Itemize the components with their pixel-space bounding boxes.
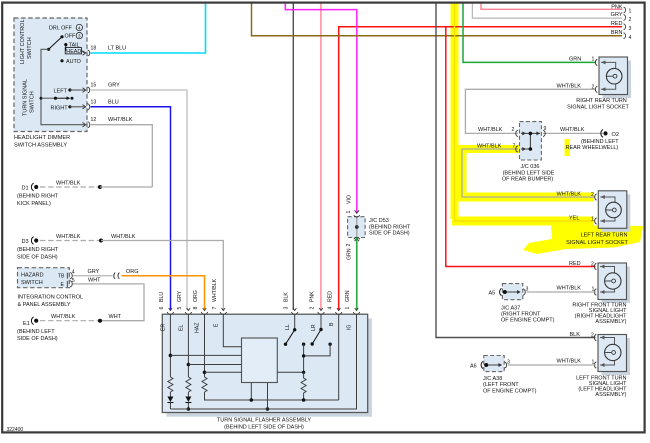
svg-text:2: 2	[592, 84, 595, 90]
svg-text:WHT/BLK: WHT/BLK	[557, 358, 582, 364]
wire WHT/BLK dashed from D1	[40, 186, 100, 188]
circled 4	[76, 24, 82, 30]
svg-text:SIDE OF DASH): SIDE OF DASH)	[17, 336, 58, 342]
svg-text:SIDE OF DASH): SIDE OF DASH)	[369, 231, 410, 237]
right edge pin numbers	[629, 9, 632, 42]
svg-text:(BEHIND RIGHT: (BEHIND RIGHT	[17, 194, 59, 200]
hazard switch box	[18, 268, 70, 288]
svg-text:2: 2	[310, 307, 316, 310]
svg-text:2: 2	[591, 333, 594, 339]
svg-text:J/C A37: J/C A37	[501, 305, 520, 311]
highlighter stroke vertical YEL wire	[451, 3, 459, 220]
label (BEHIND LEFT REAR WHEELWELL)	[566, 139, 620, 151]
ground A6	[470, 361, 483, 369]
right front turn signal light	[594, 263, 630, 303]
wire YEL under highlighter to left rear socket	[455, 3, 596, 221]
turn signal switch tap dot	[40, 97, 43, 100]
J/C036 bus dots	[529, 132, 533, 136]
svg-text:J/C A38: J/C A38	[483, 376, 502, 382]
svg-text:7: 7	[513, 144, 516, 150]
LL switch pivot dot	[293, 328, 296, 331]
wire WHT/BLK J/C036 pin9 to O2	[543, 132, 603, 134]
J/C D53 junction box	[348, 217, 366, 238]
svg-text:BLU: BLU	[108, 99, 119, 105]
svg-text:4: 4	[72, 270, 75, 276]
lamp contact left dot	[302, 343, 305, 346]
wire HAZ resistor to B rail	[205, 392, 339, 400]
svg-text:SWITCH: SWITCH	[21, 280, 43, 286]
label (BEHIND LEFT SIDE OF DASH)	[17, 329, 58, 342]
svg-text:WHT/BLK: WHT/BLK	[56, 180, 81, 186]
wire ORG from connector to flasher HAZ	[122, 276, 205, 310]
svg-text:PNK: PNK	[611, 4, 623, 10]
wire GRN from J/C D53 to flasher IG	[356, 238, 358, 311]
wire WHT/BLK right front pin1 to J/C A37	[527, 291, 597, 293]
flasher ER internal line	[169, 314, 171, 377]
left rear turn signal light socket	[595, 191, 631, 232]
svg-text:DRL OFF: DRL OFF	[49, 26, 73, 32]
svg-text:8: 8	[193, 307, 199, 310]
flasher B internal line to B rail	[338, 314, 340, 400]
svg-text:12: 12	[91, 117, 97, 123]
svg-text:4: 4	[327, 307, 333, 310]
wire WHT/BLK right rear socket pin2 to J/C 036 pin2	[465, 89, 596, 133]
svg-text:RIGHT: RIGHT	[51, 105, 69, 111]
svg-text:4: 4	[78, 26, 81, 31]
highlighter stroke wire corner vertical	[458, 145, 467, 200]
flasher HAZ internal line	[204, 314, 206, 377]
rotated wire labels above flasher	[159, 278, 351, 302]
svg-text:GRY: GRY	[88, 269, 100, 275]
svg-text:SIDE OF DASH): SIDE OF DASH)	[17, 254, 58, 260]
svg-text:J/C D53: J/C D53	[369, 218, 389, 224]
J/C036 internal wires	[521, 133, 540, 149]
svg-text:LR: LR	[311, 324, 317, 331]
svg-text:1: 1	[592, 286, 595, 292]
wire ER to IC	[170, 354, 241, 356]
svg-text:(BEHIND LEFT SIDE: (BEHIND LEFT SIDE	[503, 170, 555, 176]
J/C D53 internal wire	[356, 217, 358, 237]
svg-text:2: 2	[346, 244, 352, 247]
svg-text:TURN SIGNAL: TURN SIGNAL	[23, 79, 29, 116]
right edge connectors	[624, 7, 626, 39]
svg-text:J/C 036: J/C 036	[521, 164, 540, 170]
svg-text:WHT: WHT	[88, 278, 101, 284]
svg-text:18: 18	[91, 46, 97, 52]
ground A5	[489, 288, 502, 296]
svg-text:TB: TB	[58, 274, 65, 280]
IC bottom leg to B rail	[250, 383, 252, 401]
label (BEHIND RIGHT SIDE OF DASH)	[17, 247, 59, 260]
highlighter stroke over WHT/BLK wire to left rear socket pin2	[451, 193, 594, 202]
svg-text:A6: A6	[470, 363, 477, 369]
svg-text:REAR WHEELWELL): REAR WHEELWELL)	[566, 145, 619, 151]
svg-text:GRY: GRY	[177, 290, 183, 302]
svg-text:WHT/BLK: WHT/BLK	[557, 191, 582, 197]
label RIGHT FRONT TURN SIGNAL LIGHT (RIGHT HEADLIGHT ASSEMBLY)	[572, 302, 627, 325]
svg-text:BLK: BLK	[283, 292, 289, 302]
LR switch arm	[312, 330, 321, 345]
resistor ER	[168, 377, 173, 392]
J/C D53 bottom pin connector	[354, 237, 360, 241]
pin 13 connector	[83, 104, 90, 110]
label HAZARD SWITCH	[21, 273, 44, 287]
svg-text:3: 3	[283, 307, 289, 310]
J/C036 pin2 connector	[516, 130, 526, 136]
svg-text:VIO: VIO	[347, 195, 353, 204]
svg-text:OF REAR BUMPER): OF REAR BUMPER)	[502, 177, 554, 183]
svg-text:WHT/BLK: WHT/BLK	[477, 144, 502, 150]
left front turn signal light	[594, 334, 630, 375]
svg-text:GRN: GRN	[347, 248, 353, 260]
LEFT contact wire to pin 15	[70, 89, 85, 91]
J/C A37 internal wire and dot	[505, 291, 521, 293]
svg-text:LEFT: LEFT	[54, 88, 68, 94]
svg-text:SWITCH: SWITCH	[30, 91, 36, 113]
svg-text:WHT/BLK: WHT/BLK	[51, 314, 76, 320]
svg-text:1: 1	[592, 57, 595, 63]
svg-text:LIGHT CONTROL: LIGHT CONTROL	[20, 19, 26, 64]
rotated pin numbers above flasher	[159, 307, 351, 310]
contact merge wires	[304, 344, 331, 372]
svg-text:(BEHIND LEFT SIDE OF DASH): (BEHIND LEFT SIDE OF DASH)	[224, 425, 304, 431]
svg-text:O2: O2	[612, 132, 619, 138]
flasher LR switch line	[320, 314, 322, 329]
svg-text:ORG: ORG	[126, 269, 139, 275]
highlighter tick near O2 ground	[565, 139, 571, 156]
J/C036 pin9 connector	[536, 130, 545, 136]
svg-text:LT BLU: LT BLU	[108, 46, 126, 52]
svg-text:IG: IG	[347, 325, 353, 330]
svg-text:A5: A5	[489, 290, 496, 296]
hazard pin numbers	[72, 270, 75, 284]
light control switch arm	[49, 37, 62, 50]
circled 3	[76, 32, 82, 38]
RIGHT contact wire to pin 13	[70, 106, 85, 108]
rotated pin names inside flasher	[161, 322, 353, 333]
junction dot IC leg on ground bus	[266, 407, 270, 411]
wire PNK top right	[481, 3, 622, 9]
wire WHT/BLK left front pin1 to J/C A38	[508, 364, 596, 366]
turn signal switch arm with arrow	[55, 97, 68, 99]
label TURN SIGNAL SWITCH (rotated)	[23, 79, 36, 116]
svg-text:ASSEMBLY): ASSEMBLY)	[595, 392, 626, 398]
lamp contact right dot	[328, 343, 331, 346]
label HEADLIGHT DIMMER SWITCH ASSEMBLY	[14, 135, 70, 148]
svg-text:SIGNAL LIGHT SOCKET: SIGNAL LIGHT SOCKET	[566, 240, 628, 246]
hazard pin E connector	[67, 281, 72, 287]
svg-text:WHT/BLK: WHT/BLK	[557, 84, 582, 90]
svg-text:WHT/BLK: WHT/BLK	[111, 234, 136, 240]
svg-text:RED: RED	[327, 291, 333, 302]
HAZ junction dot	[203, 371, 207, 375]
resistor HAZ	[202, 377, 207, 392]
svg-text:3: 3	[629, 26, 632, 32]
wire GRY from hazard TB	[73, 275, 113, 277]
svg-text:3: 3	[526, 286, 529, 292]
svg-text:HAZARD: HAZARD	[21, 273, 44, 279]
svg-text:ORG: ORG	[193, 290, 199, 302]
svg-text:1: 1	[629, 9, 632, 15]
svg-text:15: 15	[91, 83, 97, 89]
wire WHT/BLK from D3 junction to flasher E pin	[101, 241, 223, 311]
svg-text:PNK: PNK	[310, 291, 316, 302]
flasher IG internal line and ground bus	[170, 314, 356, 409]
svg-text:TURN SIGNAL FLASHER ASSEMBLY: TURN SIGNAL FLASHER ASSEMBLY	[217, 418, 311, 424]
junction dot D3 wire	[99, 239, 103, 243]
junction dot lamp resistor top	[302, 371, 305, 374]
svg-text:WHT/BLK: WHT/BLK	[212, 278, 218, 302]
ground D3	[22, 237, 39, 245]
ground E1	[23, 317, 38, 327]
wire WHT/BLK J/C036 pin7 to left rear socket pin2	[462, 149, 596, 197]
J/C D53 junction dot	[355, 225, 359, 229]
wire LT BLU from pin 18 to top	[91, 3, 206, 53]
svg-text:D3: D3	[22, 239, 29, 245]
HEAD contact frame	[65, 48, 81, 54]
pin 12 connector	[83, 122, 90, 128]
EL bottom junction dot	[187, 407, 191, 411]
svg-text:2: 2	[512, 127, 515, 133]
svg-text:5: 5	[72, 278, 75, 284]
svg-text:LEFT REAR TURN: LEFT REAR TURN	[581, 233, 628, 239]
svg-text:EL: EL	[179, 325, 185, 331]
turn signal switch arm base dot	[54, 97, 57, 100]
J/C A37 junction box	[502, 284, 522, 300]
labels J/C 036 (BEHIND LEFT SIDE OF REAR BUMPER)	[502, 164, 555, 183]
svg-text:ER: ER	[161, 324, 167, 331]
IC bottom leg to ground bus	[267, 383, 269, 410]
highlighter stroke over J/C 036 pin7 wire	[451, 145, 519, 153]
svg-text:6: 6	[159, 307, 165, 310]
wire GRN from top to right rear socket	[463, 3, 596, 62]
svg-text:5: 5	[177, 307, 183, 310]
svg-text:2: 2	[591, 192, 594, 198]
wire BLK from top to left front turn signal	[436, 3, 596, 338]
hazard pin names TB and E	[58, 274, 65, 288]
J/C036 internal bus	[529, 133, 531, 149]
wire BLK from top to flasher LL	[292, 3, 294, 310]
J/C A37 pin3 connector	[517, 289, 525, 295]
svg-text:LL: LL	[285, 324, 291, 330]
svg-text:BLK: BLK	[570, 332, 581, 338]
LL switch arm	[286, 330, 295, 344]
svg-text:7: 7	[212, 307, 218, 310]
svg-text:KICK PANEL): KICK PANEL)	[17, 201, 51, 207]
svg-text:WHT/BLK: WHT/BLK	[478, 127, 503, 133]
J/C A38 internal wire and dot	[486, 364, 502, 366]
pin 18 connector	[83, 50, 90, 56]
label LEFT REAR TURN SIGNAL LIGHT SOCKET	[566, 233, 628, 246]
svg-text:(BEHIND LEFT: (BEHIND LEFT	[17, 329, 55, 335]
switch common wire to pin 12	[41, 49, 85, 124]
svg-text:OF ENGINE COMPT): OF ENGINE COMPT)	[501, 318, 555, 324]
svg-text:B: B	[329, 322, 335, 326]
light control switch pivot dot	[47, 48, 50, 51]
ground D1	[22, 183, 39, 191]
TAIL contact dot	[64, 43, 67, 46]
headlight dimmer switch assembly box	[14, 18, 87, 132]
svg-text:& PANEL ASSEMBLY: & PANEL ASSEMBLY	[18, 302, 71, 308]
turn signal flasher assembly shadow	[167, 318, 372, 416]
svg-text:HEADLIGHT DIMMER: HEADLIGHT DIMMER	[14, 135, 70, 141]
turn signal arm tip dot	[71, 97, 74, 100]
label INTEGRATION CONTROL & PANEL ASSEMBLY	[18, 295, 84, 308]
wire WHT/BLK dashed from E1	[40, 320, 100, 322]
wire GRY from pin 15 to flasher EL	[91, 90, 188, 310]
wire BRN from top to right edge	[252, 3, 623, 36]
right edge wire labels	[611, 4, 623, 36]
diode EL	[185, 392, 191, 409]
svg-text:E: E	[213, 323, 219, 327]
svg-text:3: 3	[78, 34, 81, 39]
junction dot lamp resistor bottom on B rail	[302, 398, 306, 402]
highlighter stroke over YEL wire horizontal	[452, 217, 594, 226]
diode ER	[167, 392, 173, 409]
svg-text:BRN: BRN	[611, 30, 623, 36]
svg-text:AUTO: AUTO	[66, 59, 81, 65]
wire RED branch to right front turn signal	[446, 27, 596, 267]
J/C A38 junction box	[484, 356, 504, 372]
svg-text:13: 13	[91, 99, 97, 105]
svg-text:OFF: OFF	[65, 34, 76, 40]
highlighter blob over LEFT REAR TURN SIGNAL LIGHT SOCKET label	[523, 225, 643, 254]
svg-text:(RIGHT FRONT: (RIGHT FRONT	[501, 312, 541, 318]
svg-text:SWITCH: SWITCH	[27, 37, 33, 59]
hazard pin TB connector	[67, 273, 72, 279]
flasher pin connectors top edge	[167, 308, 360, 314]
svg-text:E: E	[61, 282, 65, 288]
svg-text:2: 2	[591, 262, 594, 268]
svg-text:RIGHT REAR TURN: RIGHT REAR TURN	[576, 98, 627, 104]
junction dot E1 wire	[98, 319, 102, 323]
wire VIO from top to J/C D53	[285, 3, 357, 213]
svg-text:WHT/BLK: WHT/BLK	[560, 127, 585, 133]
right rear turn signal light socket	[595, 57, 631, 98]
light control switch contacts and labels	[49, 26, 81, 65]
svg-text:OF ENGINE COMPT): OF ENGINE COMPT)	[483, 388, 537, 394]
junction dot D1 wire	[98, 185, 102, 189]
wire RED from right edge to flasher B	[339, 27, 622, 310]
ER junction dot	[169, 354, 173, 358]
EL junction dot	[187, 363, 191, 367]
svg-text:1: 1	[345, 307, 351, 310]
svg-text:GRY: GRY	[611, 12, 623, 18]
svg-text:3: 3	[507, 359, 510, 365]
wire HAZ to IC	[205, 371, 242, 373]
wire PNK from top to flasher LR	[320, 3, 322, 310]
LR switch arm tip dot	[311, 342, 314, 345]
svg-text:ASSEMBLY): ASSEMBLY)	[595, 319, 626, 325]
label RIGHT REAR TURN SIGNAL LIGHT SOCKET	[567, 98, 629, 110]
turn signal switch arm base wire	[41, 97, 55, 99]
resistor lamp outage sensor	[301, 372, 306, 400]
labels J/C D53 (BEHIND RIGHT SIDE OF DASH)	[369, 218, 411, 237]
svg-text:(BEHIND RIGHT: (BEHIND RIGHT	[369, 225, 411, 231]
svg-text:SWITCH ASSEMBLY: SWITCH ASSEMBLY	[14, 142, 67, 148]
flasher E internal line	[223, 314, 241, 347]
wire labels left box	[108, 46, 133, 124]
J/C 036 junction box	[520, 122, 542, 160]
svg-text:1: 1	[592, 359, 595, 365]
IC right wire to lamp resistor	[277, 371, 303, 373]
svg-text:BLU: BLU	[159, 292, 165, 302]
flasher LL switch line	[294, 314, 296, 330]
wire GRY top right	[472, 3, 622, 18]
pin numbers left box	[91, 46, 97, 124]
ground O2	[601, 130, 608, 138]
wire EL to IC	[188, 364, 241, 366]
svg-text:1: 1	[591, 216, 594, 222]
svg-text:RED: RED	[611, 21, 623, 27]
svg-text:GRN: GRN	[569, 57, 581, 63]
turn signal flasher assembly box	[162, 314, 367, 412]
labels J/C A38 (LEFT FRONT OF ENGINE COMPT)	[483, 376, 537, 394]
junction dot IC leg on B rail	[250, 398, 254, 402]
OFF contact dot (arm tip)	[60, 35, 63, 38]
J/C D53 top pin connector	[354, 210, 360, 217]
labels J/C A37 (RIGHT FRONT OF ENGINE COMPT)	[501, 305, 555, 323]
svg-text:HAZ: HAZ	[195, 323, 201, 333]
svg-text:1: 1	[346, 211, 352, 214]
svg-text:322400: 322400	[7, 427, 24, 433]
wire WHT/BLK dashed from D3	[40, 240, 101, 242]
J/C A38 pin3 connector	[498, 362, 506, 368]
wire BLU from pin 13 to flasher ER	[91, 107, 171, 310]
junction dot contact merge	[302, 354, 305, 357]
label TURN SIGNAL FLASHER ASSEMBLY	[217, 418, 311, 431]
wire WHT from hazard E pin down to E1 junction	[73, 284, 145, 321]
pin 15 connector	[83, 87, 90, 93]
svg-text:INTEGRATION CONTROL: INTEGRATION CONTROL	[18, 295, 84, 301]
label LEFT FRONT TURN SIGNAL LIGHT (LEFT HEADLIGHT ASSEMBLY)	[576, 375, 627, 398]
TAIL-HEAD link	[65, 45, 67, 51]
svg-text:WHT/BLK: WHT/BLK	[557, 285, 582, 291]
svg-text:RED: RED	[569, 261, 581, 267]
svg-text:(BEHIND RIGHT: (BEHIND RIGHT	[17, 247, 59, 253]
LL switch contact dot	[284, 343, 287, 346]
svg-text:GRY: GRY	[108, 83, 120, 89]
svg-text:D1: D1	[22, 186, 29, 192]
label (BEHIND RIGHT KICK PANEL)	[17, 194, 59, 207]
LR switch pivot dot	[319, 328, 322, 331]
svg-text:E1: E1	[23, 321, 30, 327]
HEAD wire to pin 18	[82, 51, 85, 53]
svg-text:GRN: GRN	[345, 290, 351, 302]
inline connector pair on hazard wire	[114, 273, 120, 279]
svg-text:YEL: YEL	[569, 216, 579, 222]
svg-text:WHT: WHT	[109, 314, 122, 320]
wire WHT/BLK from D1 junction to pin12 drop	[100, 186, 152, 188]
flasher EL internal line	[187, 314, 189, 377]
svg-text:WHT/BLK: WHT/BLK	[56, 234, 81, 240]
flasher internal relay/IC box	[242, 338, 278, 383]
svg-text:2: 2	[629, 17, 632, 23]
svg-text:(LEFT FRONT: (LEFT FRONT	[483, 382, 519, 388]
J/C036 pin7 connector	[516, 146, 526, 152]
AUTO contact dot	[60, 59, 63, 62]
svg-text:4: 4	[629, 35, 632, 41]
wire WHT/BLK from pin 12 down to D1 junction	[91, 125, 153, 187]
resistor EL	[186, 377, 191, 392]
svg-text:WHT/BLK: WHT/BLK	[108, 117, 133, 123]
label LIGHT CONTROL SWITCH (rotated)	[20, 19, 33, 64]
svg-text:SIGNAL LIGHT SOCKET: SIGNAL LIGHT SOCKET	[567, 104, 629, 110]
